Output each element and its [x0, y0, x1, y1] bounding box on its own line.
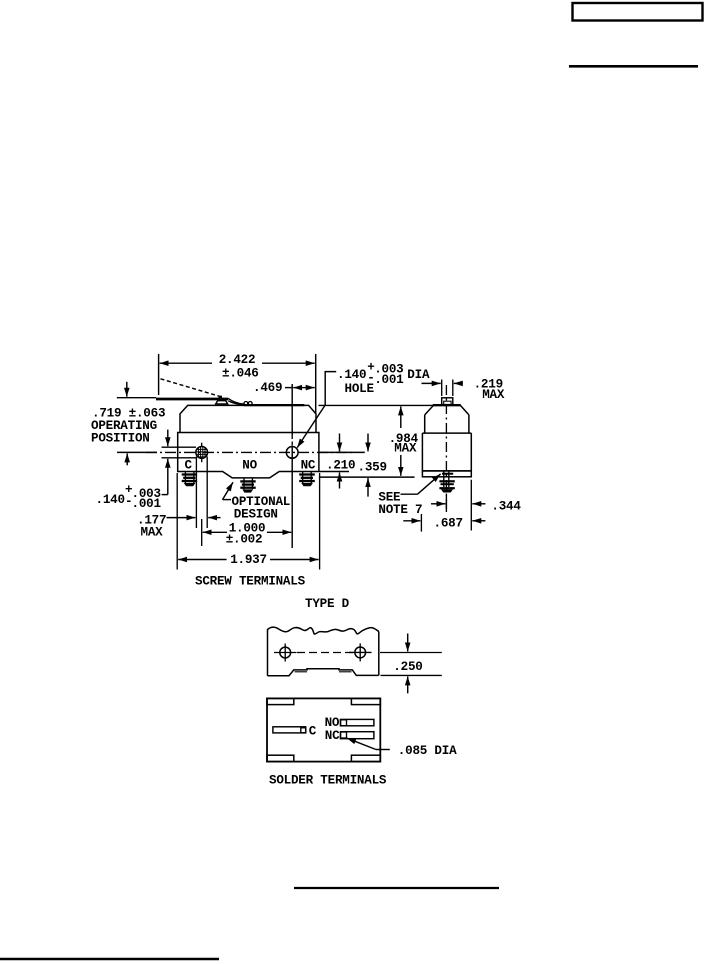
svg-text:.210: .210: [326, 458, 355, 472]
side view vertical centerline: [445, 385, 447, 512]
label OPTIONAL DESIGN with leader: [223, 482, 291, 521]
plunger: [442, 398, 453, 405]
svg-text:SCREW TERMINALS: SCREW TERMINALS: [195, 574, 306, 588]
side view cap shoulders: [425, 406, 434, 415]
svg-text:NOTE 7: NOTE 7: [378, 503, 422, 517]
corner tab bottom-left: [267, 755, 294, 761]
svg-text:.140: .140: [96, 493, 125, 507]
title block box (top right): [573, 3, 703, 21]
svg-text:NC: NC: [301, 459, 316, 473]
svg-text:POSITION: POSITION: [91, 431, 150, 445]
screw terminal C: [182, 472, 197, 486]
svg-text:C: C: [185, 459, 193, 473]
switch cap (front view): [180, 405, 316, 432]
svg-text:MAX: MAX: [394, 442, 417, 456]
svg-text:.250: .250: [393, 660, 422, 674]
side view upper section: [424, 415, 426, 433]
svg-text:.344: .344: [491, 500, 521, 514]
dimension .250: [380, 634, 442, 694]
dimension 1.937: [177, 473, 319, 570]
svg-text:.001: .001: [374, 373, 404, 387]
corner tab top-right: [351, 698, 380, 704]
svg-text:±.002: ±.002: [226, 533, 263, 547]
label .140 +.003/-.001 HOLE with leader to right hole: [297, 360, 430, 447]
side view cap top (thick): [433, 404, 461, 406]
svg-text:NO: NO: [242, 459, 257, 473]
top view right hole: [349, 643, 372, 661]
dimension .719 operating position: [91, 382, 165, 466]
footnote rule (bottom left): [0, 958, 219, 960]
svg-text:MAX: MAX: [141, 525, 164, 539]
screw terminal NC: [299, 472, 315, 486]
lever end curve: [228, 398, 244, 404]
svg-text:.001: .001: [132, 497, 162, 511]
centerline between holes: [297, 652, 353, 654]
side view base plate: [422, 471, 471, 477]
top view left hole: [274, 644, 297, 662]
corner tab bottom-right: [351, 755, 380, 761]
dimension .359: [319, 434, 415, 497]
svg-text:NC: NC: [325, 729, 340, 743]
svg-text:DESIGN: DESIGN: [234, 507, 278, 521]
right hole vertical centerline / extension: [291, 384, 293, 435]
svg-text:C: C: [309, 725, 317, 739]
header rule: [569, 65, 698, 68]
dimension .140 hole dia (left): [96, 430, 197, 511]
dimension .469: [253, 381, 315, 395]
lever (solid, operating position): [156, 398, 228, 401]
svg-text:.359: .359: [358, 460, 387, 474]
label SEE NOTE 7 with leader: [378, 474, 440, 517]
dimension .344: [431, 480, 521, 531]
footnote rule (center): [294, 887, 499, 889]
lever free position (dashed): [161, 379, 223, 397]
corner tab top-left: [267, 698, 294, 704]
label .085 DIA with leader: [347, 738, 457, 758]
svg-text:.469: .469: [253, 381, 282, 395]
svg-text:2.422: 2.422: [219, 353, 256, 367]
horizontal centerline through holes: [117, 451, 157, 453]
svg-text:MAX: MAX: [482, 388, 505, 402]
solder terminal C: [273, 727, 306, 733]
dimension .984 MAX: [319, 405, 434, 475]
svg-text:.140: .140: [337, 368, 366, 382]
side view lower body: [421, 433, 423, 471]
outer case outline: [267, 698, 380, 761]
switch body (front view): [178, 433, 319, 478]
svg-text:DIA: DIA: [407, 368, 430, 382]
dimension .210: [319, 434, 355, 489]
dimension 2.422 +/-.046: [159, 353, 316, 414]
right mounting hole: [286, 447, 298, 459]
lever pivot pin nub: [219, 396, 222, 399]
screw terminal NO: [240, 478, 255, 492]
svg-text:1.937: 1.937: [230, 553, 267, 567]
bottom profile of top view: [268, 669, 379, 676]
broken-out body outline with wavy break line: [268, 627, 379, 676]
svg-text:.687: .687: [434, 517, 463, 531]
dimension .687: [403, 514, 485, 532]
lever blade over cap: [244, 404, 304, 406]
lever tip rollers: [244, 402, 248, 406]
dimension .177 MAX: [137, 457, 221, 540]
lever pivot block: [216, 401, 228, 404]
dimension .219 MAX: [422, 377, 505, 402]
svg-text:HOLE: HOLE: [345, 382, 375, 396]
svg-text:TYPE D: TYPE D: [305, 597, 350, 611]
side view terminal screw: [439, 471, 454, 492]
dimension 1.000 +/-.002: [202, 519, 292, 547]
svg-text:.085 DIA: .085 DIA: [398, 744, 457, 758]
svg-text:NO: NO: [325, 716, 340, 730]
left mounting hole (hatched): [196, 443, 209, 463]
svg-text:±.046: ±.046: [222, 366, 259, 380]
svg-text:SOLDER TERMINALS: SOLDER TERMINALS: [269, 774, 387, 788]
centerline extension right (to .210/.359 dims): [319, 451, 365, 453]
